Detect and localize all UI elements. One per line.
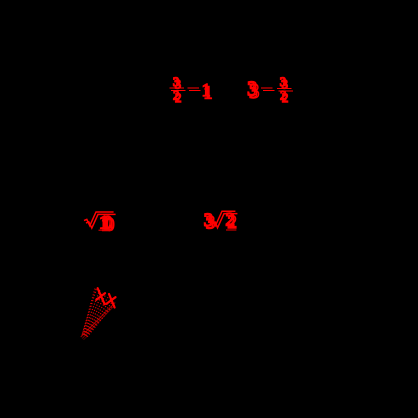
shaded angle wedge at bottom-left vertex	[81, 287, 116, 340]
wedge left ray (dotted)	[82, 287, 95, 336]
X mark 1	[96, 288, 105, 304]
label: (3 - 3/2) doubled sketch stroke	[247, 75, 293, 105]
X mark 2	[106, 294, 115, 308]
label: (3/2 - 1) doubled sketch stroke	[169, 75, 212, 105]
label: 3*sqrt(2) doubled sketch stroke	[204, 210, 238, 234]
wedge stipple hatch	[82, 288, 114, 337]
underline stroke under sqrt(10)	[99, 229, 113, 231]
label: sqrt(10) doubled sketch stroke	[84, 212, 116, 236]
underline stroke under 3*sqrt(2)	[226, 229, 236, 231]
wedge right ray	[81, 303, 116, 338]
